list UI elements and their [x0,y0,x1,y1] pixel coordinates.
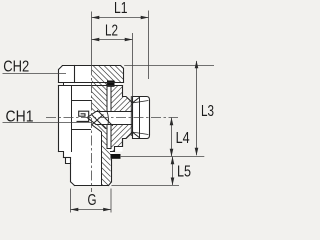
svg-text:L5: L5 [177,164,191,181]
svg-text:G: G [88,192,97,209]
svg-text:L2: L2 [105,23,118,40]
svg-text:L4: L4 [176,130,190,147]
svg-text:L3: L3 [201,103,214,120]
svg-text:L1: L1 [114,0,128,17]
svg-text:CH2: CH2 [3,59,29,76]
svg-text:CH1: CH1 [6,108,34,125]
